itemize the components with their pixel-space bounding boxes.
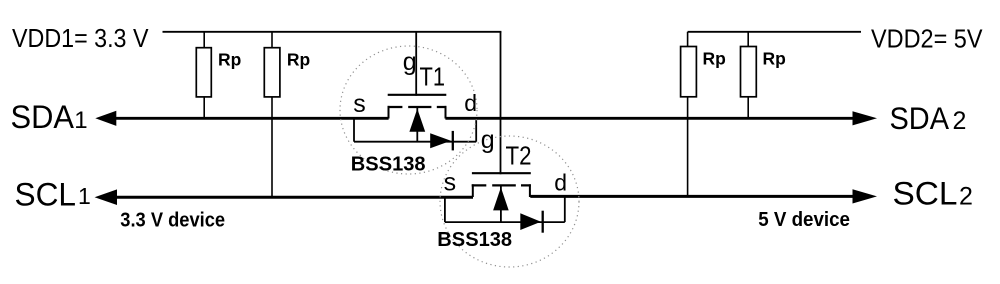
- svg-text:VDD2= 5V: VDD2= 5V: [871, 24, 983, 54]
- svg-text:2: 2: [953, 107, 967, 135]
- svg-text:T1: T1: [420, 62, 446, 92]
- svg-text:1: 1: [74, 107, 87, 134]
- svg-text:g: g: [481, 126, 495, 154]
- svg-text:VDD1= 3.3 V: VDD1= 3.3 V: [12, 23, 149, 53]
- svg-text:Rp: Rp: [218, 50, 241, 70]
- svg-text:5 V device: 5 V device: [758, 209, 850, 231]
- svg-text:Rp: Rp: [287, 50, 310, 70]
- svg-text:Rp: Rp: [763, 48, 786, 68]
- svg-text:T2: T2: [506, 141, 532, 171]
- svg-text:BSS138: BSS138: [351, 154, 426, 176]
- svg-text:s: s: [353, 90, 366, 118]
- svg-text:BSS138: BSS138: [437, 229, 512, 251]
- svg-text:1: 1: [78, 183, 91, 209]
- svg-text:SDA: SDA: [11, 99, 75, 135]
- svg-text:g: g: [403, 48, 417, 76]
- svg-text:2: 2: [959, 183, 973, 211]
- svg-text:d: d: [464, 90, 477, 116]
- svg-text:s: s: [444, 169, 457, 197]
- svg-text:SCL: SCL: [15, 177, 77, 213]
- svg-text:Rp: Rp: [703, 48, 726, 68]
- svg-text:SDA: SDA: [890, 100, 950, 136]
- svg-text:SCL: SCL: [893, 176, 958, 212]
- svg-text:3.3 V device: 3.3 V device: [120, 210, 225, 232]
- svg-text:d: d: [554, 170, 567, 196]
